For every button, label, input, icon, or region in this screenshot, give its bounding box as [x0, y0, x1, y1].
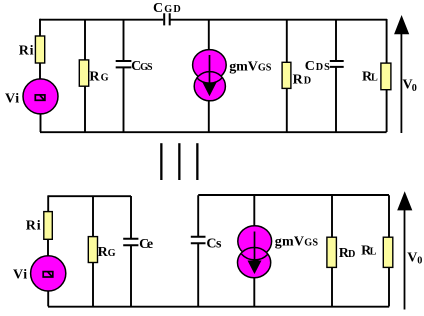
svg-text:RG: RG [89, 69, 108, 84]
svg-text:Ri: Ri [19, 43, 34, 58]
svg-text:RD: RD [339, 246, 356, 261]
svg-text:RL: RL [361, 243, 377, 258]
svg-text:Ri: Ri [26, 218, 41, 233]
svg-text:CDS: CDS [305, 59, 330, 74]
svg-text:CGD: CGD [153, 1, 181, 16]
svg-text:RD: RD [293, 72, 312, 87]
svg-text:gmVGS: gmVGS [229, 59, 272, 74]
svg-text:RG: RG [98, 245, 116, 260]
svg-text:CGS: CGS [131, 59, 153, 74]
svg-text:Vi: Vi [13, 268, 27, 283]
svg-text:gmVGS: gmVGS [275, 234, 319, 249]
svg-text:Cs: Cs [206, 236, 222, 251]
svg-text:RL: RL [362, 70, 378, 85]
svg-text:Ce: Ce [139, 237, 153, 252]
svg-text:Vi: Vi [5, 92, 19, 107]
